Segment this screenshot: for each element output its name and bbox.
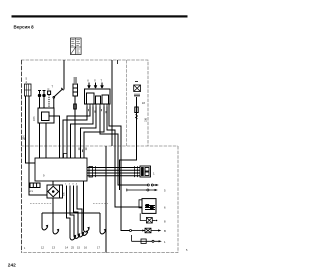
row1a wire tail <box>153 184 156 186</box>
connector XP5 <box>30 183 40 188</box>
terminal G1 <box>38 91 46 97</box>
wire ECU bottom 5 <box>83 181 85 230</box>
wire ECU bottom 1 <box>67 186 71 239</box>
ECU A1 <box>35 158 87 181</box>
relay pins <box>87 104 107 107</box>
arrow into relay 1 <box>88 83 90 89</box>
wire relay out 4 <box>81 107 97 159</box>
wire bundle 2 <box>87 169 140 171</box>
wire ECU bottom 2 <box>70 186 74 237</box>
wire relay out 1 <box>63 107 87 159</box>
dashed wire C1 <box>48 95 50 109</box>
wire relay out 7 <box>109 104 130 231</box>
plug X2 <box>73 84 78 96</box>
dashed link left <box>30 203 52 205</box>
row1b wire <box>127 189 155 191</box>
wire radio loop <box>139 200 142 208</box>
top rule <box>12 15 188 17</box>
ECU right connector <box>89 167 93 178</box>
wire bundle 4 <box>87 175 140 177</box>
frame: vehicle boundary dash-dot <box>21 60 178 253</box>
wire relay out 2 <box>67 107 90 159</box>
row1b tick <box>126 189 128 192</box>
wire to lamp row <box>100 107 147 186</box>
radio unit box <box>142 199 156 214</box>
relay K2 <box>38 108 54 123</box>
row1a circle a <box>147 184 149 186</box>
wire ECU bottom 4 <box>77 186 82 234</box>
row4 arrow <box>158 229 161 231</box>
switch S1 <box>53 88 64 98</box>
inner divider dashed x126.5 <box>126 60 128 146</box>
relay block K1 <box>85 89 111 104</box>
wire ground drop <box>105 146 107 253</box>
row5 stub <box>131 235 133 241</box>
row1a circle b <box>151 184 153 186</box>
wire gauge specks <box>88 109 106 113</box>
row5 arrow <box>159 240 162 242</box>
revision stamp box <box>71 38 82 55</box>
arrow into relay 3 <box>101 83 103 89</box>
row4 tail <box>151 230 159 232</box>
wire radio to lamp H2 <box>140 213 146 220</box>
lamp terminal ticks <box>134 94 140 98</box>
row4 arrow into box <box>142 230 145 232</box>
connector X1 <box>25 84 32 96</box>
frame divider dashed y146 <box>21 145 178 147</box>
wire G1 down <box>39 97 41 108</box>
wire relay out 6 <box>107 107 142 208</box>
resistor squiggle <box>135 115 138 120</box>
svg-text:ДВК: ДВК <box>23 135 26 140</box>
wire X2 down <box>74 96 76 158</box>
wire lamp down <box>120 97 137 190</box>
lamp H2 <box>146 218 152 224</box>
connector X3 <box>140 166 151 177</box>
tick on top border <box>117 60 119 64</box>
svg-text:242: 242 <box>8 262 16 268</box>
wire ECU bottom 3 <box>74 186 79 236</box>
row1b circle <box>147 189 149 191</box>
wire jog above ECU <box>64 154 68 158</box>
wire switch stem <box>63 60 65 90</box>
H2 tail dot <box>156 220 157 221</box>
plug X2 label <box>74 78 78 82</box>
wire relay out 3 <box>71 107 94 159</box>
wire K2 right out <box>54 116 60 158</box>
wire bus drop left <box>41 213 43 228</box>
wire code specks <box>79 148 87 153</box>
dashed link right <box>93 203 108 205</box>
svg-text:Версия 8: Версия 8 <box>14 25 35 30</box>
wire bundle 1 <box>87 167 140 169</box>
wire VD1 down <box>52 198 54 213</box>
svg-text:ХУЗ: ХУЗ <box>34 116 36 121</box>
capacitor C1 <box>48 91 51 95</box>
row4 wire <box>132 230 146 232</box>
wire from X1 pin a <box>26 96 36 163</box>
wire G2 down <box>43 97 45 108</box>
row1b arrow <box>155 189 158 191</box>
svg-text:C: C <box>48 87 50 91</box>
svg-text:156: 156 <box>145 117 148 122</box>
frame left edge <box>21 60 23 253</box>
diode module VD1 <box>47 185 63 198</box>
row1a arrow <box>156 184 159 186</box>
bundle pin ticks right <box>135 166 138 177</box>
wire bundle 3 <box>87 172 140 174</box>
row4 circle <box>130 230 132 232</box>
arrow into relay 2 <box>95 83 97 89</box>
wire ground bus <box>42 212 100 214</box>
wire relay out 5 hook <box>99 213 101 232</box>
lamp H3 <box>145 228 151 233</box>
row5 box <box>141 239 146 243</box>
bundle pin ticks left <box>95 166 97 177</box>
wire K2 bottom out 1 <box>39 123 41 158</box>
svg-text:В: В <box>164 229 166 233</box>
wire relay out 5 <box>84 107 104 159</box>
wire H2 tail <box>152 220 156 222</box>
lamp H1 <box>134 85 141 92</box>
wire S1 to relay K2 <box>53 98 55 108</box>
wire bus b <box>111 60 113 146</box>
wire ECU to VD1 <box>52 181 54 185</box>
wire K2 bottom out 2 <box>45 123 47 158</box>
lamp H1 label <box>135 81 138 83</box>
wire from X1 pin b <box>29 96 47 195</box>
wire VD1 hook <box>52 213 54 232</box>
inline resistor R1 <box>135 107 138 113</box>
row5 circle <box>152 240 154 242</box>
row5 wire <box>132 240 160 242</box>
inline fuse F1 <box>74 104 77 109</box>
